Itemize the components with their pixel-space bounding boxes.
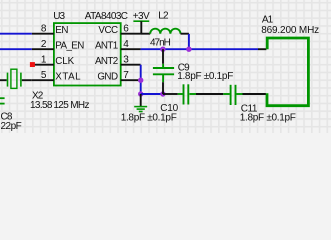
svg-text:6: 6	[123, 23, 129, 34]
pin 7 GND stub	[121, 79, 141, 81]
svg-text:ANT1: ANT1	[95, 41, 118, 52]
wire net EN from left edge	[0, 33, 32, 35]
junction ANT1/C9	[160, 47, 165, 52]
svg-text:13.58125 MHz: 13.58125 MHz	[30, 100, 89, 111]
svg-text:1.8pF ±0.1pF: 1.8pF ±0.1pF	[177, 71, 233, 82]
capacitor C11	[223, 85, 242, 105]
svg-text:3: 3	[123, 54, 129, 65]
wire bottom rail blue segment	[141, 93, 163, 95]
svg-text:ATA8403C: ATA8403C	[85, 11, 128, 22]
antenna A1 (thick green loop)	[267, 38, 308, 106]
pin 5 XTAL stub	[32, 79, 54, 81]
wire net ANT2 vertical	[140, 65, 142, 94]
svg-text:22pF: 22pF	[1, 121, 22, 132]
+3V supply symbol	[133, 20, 149, 22]
pin 2 PA_EN stub	[32, 48, 54, 50]
svg-text:1: 1	[41, 54, 47, 65]
svg-text:XTAL: XTAL	[55, 72, 81, 83]
wire L2 drop to ANT1 net	[188, 34, 190, 49]
svg-text:8: 8	[41, 23, 47, 34]
ground symbol	[134, 94, 147, 112]
pin 1 CLK stub	[32, 64, 54, 66]
capacitor C10	[178, 84, 196, 104]
svg-text:1.8pF ±0.1pF: 1.8pF ±0.1pF	[240, 113, 296, 124]
wire net ANT1 row	[141, 48, 258, 50]
junction rail/C9	[160, 91, 165, 96]
wire to antenna feed top	[258, 48, 266, 50]
svg-text:L2: L2	[158, 10, 169, 21]
svg-text:CLK: CLK	[55, 56, 74, 67]
wire VCC to L2	[141, 33, 151, 35]
wire net PA_EN from left edge	[0, 48, 32, 50]
svg-text:4: 4	[123, 39, 129, 50]
svg-text:1.8pF ±0.1pF: 1.8pF ±0.1pF	[121, 112, 177, 123]
pin 4 ANT1 stub	[121, 48, 141, 50]
svg-text:+3V: +3V	[133, 11, 150, 22]
pin 3 ANT2 stub	[121, 64, 141, 66]
wire C10 to C11	[196, 93, 223, 95]
unconnected pin marker (red) on CLK	[30, 62, 35, 67]
wire +3V drop to VCC	[140, 21, 142, 34]
junction ANT1/L2	[186, 47, 191, 52]
svg-text:2: 2	[41, 39, 47, 50]
wire crystal to left edge	[0, 79, 7, 81]
svg-text:GND: GND	[97, 72, 118, 83]
wire crystal to XTAL pin	[22, 79, 32, 81]
svg-text:869.200 MHz: 869.200 MHz	[261, 25, 319, 36]
svg-text:A1: A1	[262, 15, 274, 26]
svg-text:U3: U3	[53, 11, 65, 22]
wire L2 right	[181, 33, 189, 35]
svg-text:PA_EN: PA_EN	[55, 41, 84, 52]
pin 6 VCC stub	[121, 33, 141, 35]
svg-text:ANT2: ANT2	[95, 56, 118, 67]
svg-text:47nH: 47nH	[150, 37, 171, 48]
svg-text:EN: EN	[55, 25, 68, 36]
svg-text:5: 5	[41, 70, 47, 81]
svg-text:7: 7	[123, 70, 129, 81]
IC U3 body	[54, 23, 121, 85]
svg-text:VCC: VCC	[98, 25, 118, 36]
capacitor C9	[153, 49, 174, 94]
pin 8 EN stub	[32, 33, 54, 35]
wire rail to C10	[163, 93, 178, 95]
junction ANT2/GND pin	[138, 78, 143, 83]
crystal X2	[8, 69, 21, 88]
inductor L2	[150, 29, 180, 34]
junction ANT2/rail/ground	[138, 91, 143, 96]
capacitor C8 (clipped at left edge)	[0, 98, 5, 103]
wire C11 to antenna feed bottom	[243, 93, 266, 95]
